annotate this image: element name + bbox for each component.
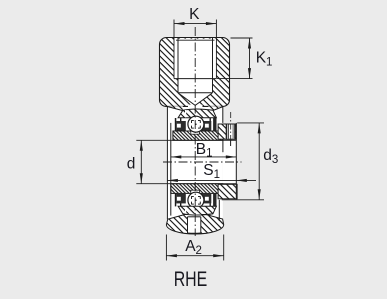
svg-text:K: K: [189, 6, 200, 23]
svg-text:RHE: RHE: [174, 268, 208, 292]
svg-text:d: d: [127, 156, 136, 173]
